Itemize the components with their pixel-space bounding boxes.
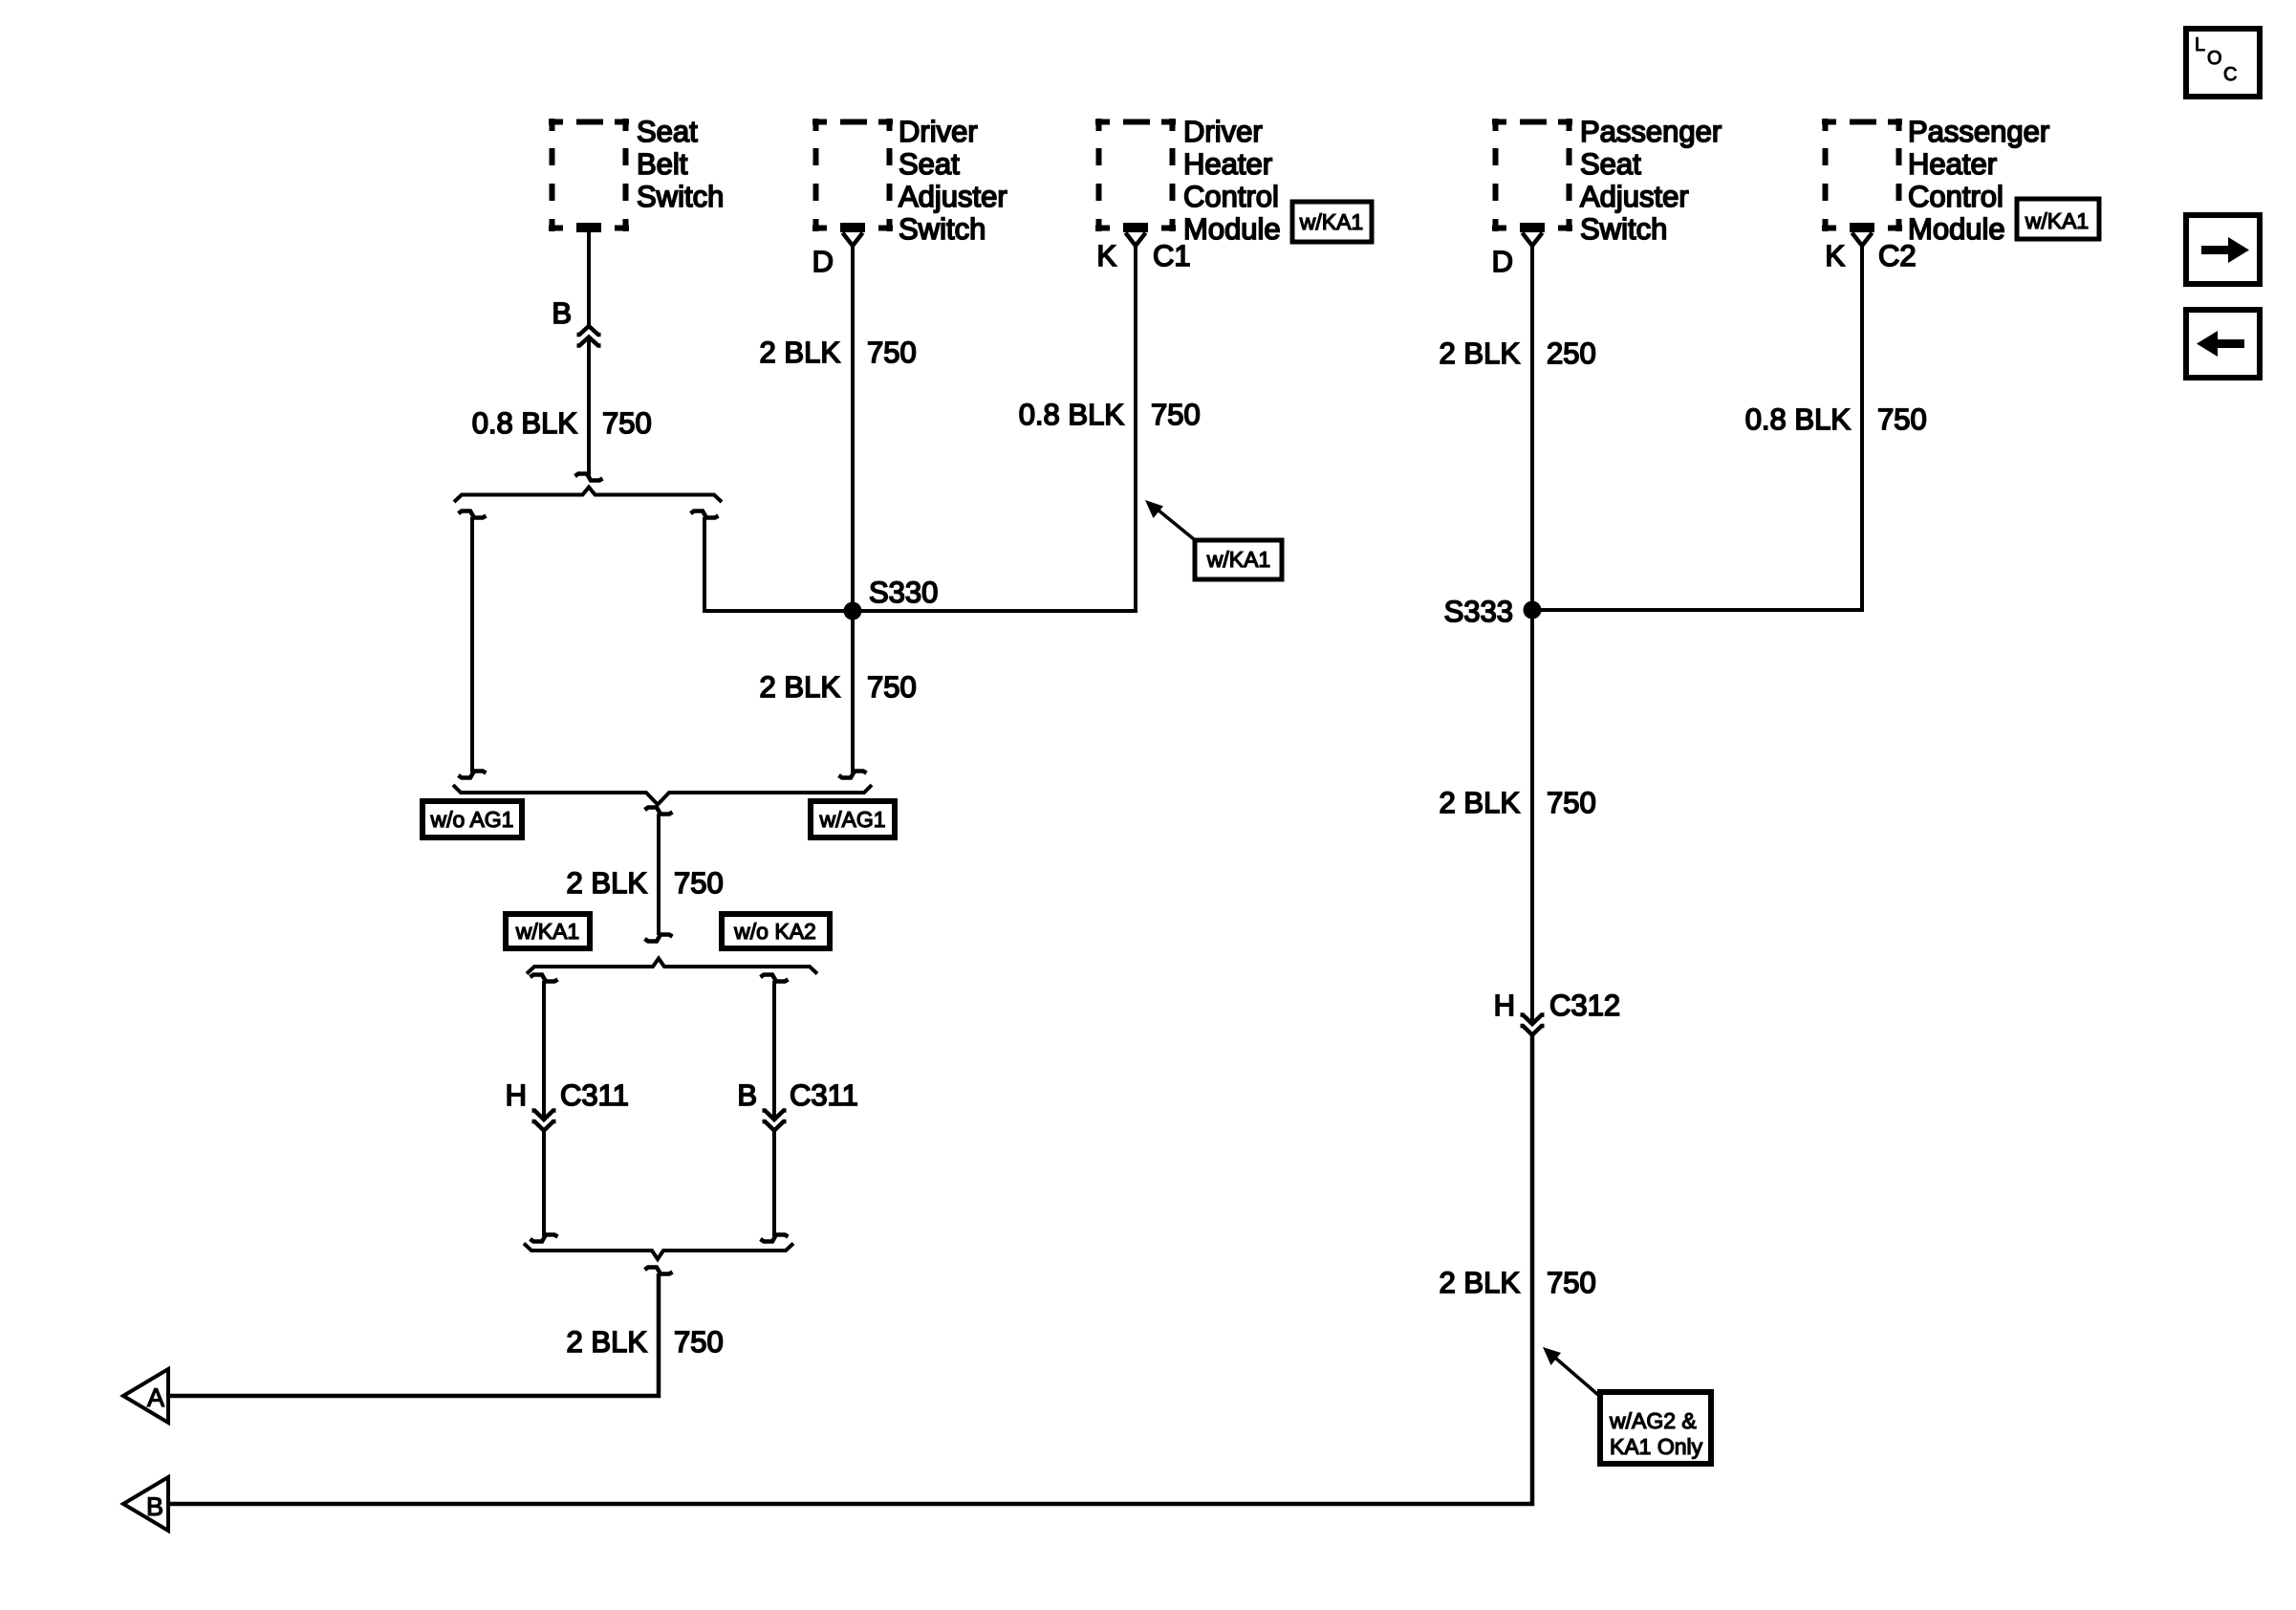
- svg-text:0.8 BLK: 0.8 BLK: [472, 406, 578, 440]
- in-line connector C311 right: [763, 1111, 787, 1131]
- svg-text:Heater: Heater: [1183, 147, 1272, 181]
- svg-text:C1: C1: [1153, 239, 1191, 272]
- svg-text:w/KA1: w/KA1: [1206, 547, 1270, 572]
- option split brace 3: [527, 959, 817, 974]
- svg-text:2 BLK: 2 BLK: [1440, 1266, 1521, 1299]
- svg-text:750: 750: [867, 670, 917, 704]
- callout box w/KA1 (driver harness): [1195, 540, 1282, 579]
- svg-text:w/AG2 &: w/AG2 &: [1609, 1408, 1697, 1433]
- wire: w/o KA2 branch lower: [772, 1131, 776, 1237]
- wire: S333 to passenger heater control module: [1532, 246, 1862, 610]
- svg-text:S333: S333: [1444, 595, 1513, 628]
- svg-text:B: B: [552, 296, 572, 330]
- wire: w/o KA2 branch upper: [772, 981, 776, 1120]
- svg-text:2 BLK: 2 BLK: [567, 1325, 648, 1359]
- svg-text:Driver: Driver: [1183, 115, 1263, 148]
- splice S333: [1524, 601, 1542, 620]
- svg-text:750: 750: [1877, 402, 1927, 436]
- option merge brace 4: [524, 1244, 793, 1260]
- svg-text:750: 750: [602, 406, 652, 440]
- connector box: Seat Belt Switch: [549, 119, 629, 231]
- svg-text:KA1 Only: KA1 Only: [1610, 1434, 1703, 1459]
- svg-text:C312: C312: [1549, 989, 1620, 1022]
- svg-text:Switch: Switch: [899, 212, 986, 246]
- svg-text:Control: Control: [1183, 180, 1279, 213]
- svg-text:2 BLK: 2 BLK: [760, 670, 841, 704]
- option tag box w/KA1 (passenger heater): [2017, 199, 2099, 239]
- svg-text:Heater: Heater: [1908, 147, 1997, 181]
- wire: 0.8 BLK 750 seat belt: [587, 337, 591, 478]
- option tag box w/o KA2: [722, 914, 830, 948]
- callout arrow w/AG2 & KA1 Only: [1556, 1359, 1598, 1395]
- svg-text:O: O: [2207, 48, 2222, 69]
- branch hook right (brace 3): [761, 975, 789, 982]
- svg-text:750: 750: [1547, 786, 1596, 819]
- svg-text:L: L: [2195, 34, 2205, 55]
- svg-text:2 BLK: 2 BLK: [567, 866, 648, 900]
- wire: left option branch: [470, 517, 474, 772]
- branch hook left (brace 1): [459, 511, 487, 518]
- svg-text:w/KA1: w/KA1: [2025, 208, 2089, 233]
- svg-text:H: H: [1494, 989, 1515, 1022]
- wire: driver seat adjuster to S330, 2 BLK 750: [851, 245, 855, 611]
- splice S330: [844, 602, 862, 620]
- connector box: Passenger Seat Adjuster Switch: [1492, 119, 1572, 231]
- svg-text:Adjuster: Adjuster: [899, 180, 1007, 213]
- wire: S333 down 2 BLK 750: [1530, 610, 1534, 1024]
- svg-text:0.8 BLK: 0.8 BLK: [1019, 398, 1125, 431]
- svg-text:H: H: [506, 1078, 527, 1112]
- svg-text:Passenger: Passenger: [1908, 115, 2049, 148]
- connector box: Driver Heater Control Module: [1095, 119, 1176, 231]
- svg-text:w/o AG1: w/o AG1: [430, 807, 514, 832]
- svg-text:S330: S330: [869, 576, 938, 609]
- svg-text:2 BLK: 2 BLK: [1440, 337, 1521, 370]
- legend LOC box: [2186, 29, 2260, 97]
- svg-text:750: 750: [1151, 398, 1201, 431]
- wire: passenger seat adjuster to S333, 2 BLK 250: [1530, 245, 1534, 610]
- svg-text:w/o KA2: w/o KA2: [733, 919, 816, 944]
- splice squiggle above brace 1: [575, 474, 603, 481]
- svg-text:Module: Module: [1908, 212, 2005, 246]
- callout arrow w/KA1 (driver): [1158, 510, 1194, 539]
- svg-text:Seat: Seat: [637, 115, 698, 148]
- svg-text:Belt: Belt: [637, 147, 688, 181]
- splice squiggle below merge brace 2: [645, 808, 673, 815]
- svg-text:Control: Control: [1908, 180, 2004, 213]
- off-page connector B: [123, 1477, 168, 1531]
- end hook above brace 3: [645, 935, 673, 942]
- wire: 2 BLK 750 to A: [168, 1273, 659, 1396]
- svg-text:D: D: [812, 245, 834, 278]
- svg-text:B: B: [737, 1078, 757, 1112]
- option split brace 1: [454, 488, 722, 503]
- terminal fork pin K: [1852, 233, 1873, 247]
- svg-text:Switch: Switch: [1580, 212, 1667, 246]
- svg-text:Passenger: Passenger: [1580, 115, 1722, 148]
- svg-text:0.8 BLK: 0.8 BLK: [1745, 402, 1852, 436]
- wire: seat belt switch lead: [587, 231, 591, 326]
- svg-text:2 BLK: 2 BLK: [760, 336, 841, 369]
- svg-text:750: 750: [1547, 1266, 1596, 1299]
- svg-text:C: C: [2223, 64, 2237, 85]
- legend right arrow box: [2186, 215, 2260, 284]
- wire: 2 BLK 750 mid: [657, 814, 661, 935]
- svg-text:250: 250: [1547, 337, 1596, 370]
- svg-text:Adjuster: Adjuster: [1580, 180, 1689, 213]
- terminal fork pin K: [1126, 233, 1146, 247]
- branch hook right (brace 1): [691, 511, 719, 518]
- splice squiggle below merge brace 4: [645, 1268, 673, 1274]
- in-line connector C312: [1521, 1015, 1545, 1035]
- svg-text:C311: C311: [790, 1078, 858, 1112]
- option tag box w/AG1: [811, 801, 895, 838]
- in-line connector C311 left: [532, 1111, 556, 1131]
- legend left arrow box: [2186, 310, 2260, 378]
- svg-text:750: 750: [674, 866, 724, 900]
- svg-text:B: B: [146, 1492, 163, 1521]
- option merge brace 2: [453, 785, 872, 805]
- branch end hook left: [459, 772, 487, 778]
- svg-text:Module: Module: [1183, 212, 1281, 246]
- wire: S330 to driver heater control module: [853, 246, 1136, 611]
- svg-text:C311: C311: [560, 1078, 629, 1112]
- svg-text:750: 750: [867, 336, 917, 369]
- callout box w/AG2 & KA1 Only: [1600, 1392, 1711, 1464]
- svg-text:Driver: Driver: [899, 115, 978, 148]
- branch end hook right: [839, 772, 867, 778]
- terminal fork pin D: [1523, 233, 1543, 247]
- branch end hook right: [761, 1235, 789, 1242]
- svg-text:D: D: [1492, 245, 1513, 278]
- option tag box w/KA1 (driver heater): [1292, 202, 1372, 242]
- connector box: Driver Seat Adjuster Switch: [812, 119, 893, 231]
- svg-text:K: K: [1825, 239, 1845, 272]
- branch end hook left: [531, 1235, 558, 1242]
- in-line connector (up) on seat belt wire: [577, 326, 601, 346]
- connector box: Passenger Heater Control Module: [1822, 119, 1902, 231]
- wire: 2 BLK 750 to B: [168, 1035, 1532, 1505]
- terminal fork pin D: [843, 233, 863, 247]
- branch hook left (brace 3): [531, 975, 558, 982]
- wire: w/KA1 branch upper: [542, 981, 546, 1120]
- svg-text:K: K: [1096, 239, 1116, 272]
- wire: right option branch to S330: [704, 517, 853, 611]
- svg-text:Switch: Switch: [637, 180, 724, 213]
- svg-text:Seat: Seat: [1580, 147, 1641, 181]
- svg-text:w/KA1: w/KA1: [1299, 209, 1363, 234]
- option tag box w/o AG1: [422, 801, 522, 838]
- wire: w/KA1 branch lower: [542, 1131, 546, 1237]
- svg-text:Seat: Seat: [899, 147, 960, 181]
- svg-text:w/AG1: w/AG1: [818, 807, 885, 832]
- svg-text:w/KA1: w/KA1: [515, 919, 579, 944]
- svg-text:750: 750: [674, 1325, 724, 1359]
- svg-text:A: A: [147, 1383, 164, 1412]
- option tag box w/KA1 (left branch): [506, 914, 590, 948]
- off-page connector A: [123, 1369, 168, 1423]
- svg-text:C2: C2: [1878, 239, 1917, 272]
- wire: S330 down 2 BLK 750: [851, 611, 855, 772]
- svg-text:2 BLK: 2 BLK: [1440, 786, 1521, 819]
